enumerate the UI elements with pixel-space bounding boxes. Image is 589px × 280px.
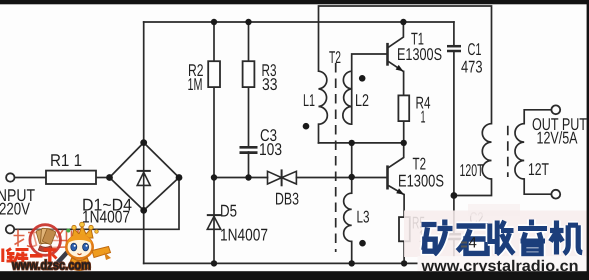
junction node R4 bottom T2 collector (401, 140, 407, 146)
watermark url band crystalradio (418, 256, 589, 273)
wire 12T bottom to output terminal (524, 179, 551, 194)
resistor R2 (208, 61, 220, 87)
wire R1 to bridge left vertex (96, 177, 110, 179)
wire R2 top lead (213, 22, 215, 61)
wire input bottom terminal to bridge right vertex (14, 178, 179, 230)
wire L3 bottom lead to bus (351, 241, 353, 263)
watermark char shou (488, 221, 514, 255)
svg-text:T2: T2 (329, 48, 341, 67)
junction node L2 bottom (349, 140, 355, 146)
wire L1-L2-R4 bottom row (319, 142, 404, 144)
svg-text:E1300S: E1300S (397, 45, 442, 64)
junction node T2 base (349, 174, 355, 180)
watermark dzsc red text weiku (3, 249, 57, 263)
transistor T1 (388, 43, 404, 72)
terminal input bottom (6, 225, 14, 233)
top black bar (0, 0, 589, 4)
wire top bus corner down to C1 (453, 22, 455, 45)
svg-text:L2: L2 (355, 91, 369, 110)
phase dot L3 (359, 240, 366, 247)
svg-text:1N4007: 1N4007 (220, 226, 268, 245)
wire C2 bottom to bus end (453, 241, 455, 264)
wire L3 top lead (351, 178, 353, 194)
watermark dzsc mascot body (69, 258, 91, 271)
svg-text:12V/5A: 12V/5A (537, 129, 578, 148)
junction bus R5 bottom (401, 260, 407, 266)
diode D5 (207, 215, 221, 229)
junction node C1-120T-C2 (451, 192, 458, 199)
watermark crystalradio pale backdrop (404, 211, 589, 258)
watermark dzsc seal circle (30, 225, 61, 256)
wire junction down through C2 to bus (453, 196, 455, 234)
wire L1 bottom lead (318, 124, 320, 143)
svg-text:473: 473 (461, 58, 483, 77)
winding L2 (343, 71, 352, 124)
wire R4 bottom to T2 collector node (403, 121, 405, 143)
capacitor C1 plates (447, 46, 461, 51)
svg-text:DB3: DB3 (275, 190, 299, 209)
junction bridge top vertex (140, 139, 147, 146)
terminal output bottom (551, 190, 560, 199)
watermark dzsc mascot sword (56, 241, 78, 264)
watermark dzsc mascot crown (66, 222, 98, 238)
winding L3 (344, 193, 352, 241)
winding L1 (319, 71, 328, 124)
wire junction to 120T bottom (454, 179, 492, 196)
wire feedback loop L1 top to 120T top (319, 6, 492, 124)
wire input top terminal to R1 (15, 177, 47, 179)
bridge rectifier D1~D4 diamond (110, 143, 180, 211)
wire R3 top lead (248, 22, 250, 61)
wire T1 emitter to R4 top (403, 71, 405, 95)
watermark char kuang (422, 220, 453, 255)
junction bus D5 bottom (211, 260, 217, 266)
watermark char shi (457, 226, 489, 254)
wire R3 bottom to C3 (248, 87, 250, 146)
wire C3 bottom to node (248, 152, 250, 178)
junction bridge right vertex (176, 174, 183, 181)
svg-text:103: 103 (259, 140, 282, 159)
watermark dzsc mascot head (66, 236, 92, 259)
wire 12T top to output terminal (524, 110, 551, 124)
resistor R1 (46, 171, 96, 184)
wire left vertical bridge top to bus (143, 22, 145, 143)
phase dot L2 (359, 75, 366, 82)
svg-text:D5: D5 (220, 202, 237, 221)
phase dot L1 (303, 123, 310, 130)
resistor R5 (399, 217, 410, 241)
svg-text:12T: 12T (528, 160, 549, 179)
junction bridge bottom vertex (140, 207, 147, 214)
bridge inner diode (137, 143, 151, 211)
wire node row D5 top to DB3 (214, 177, 268, 179)
svg-text:1M: 1M (188, 75, 203, 94)
wire T2 emitter to R5 top (403, 195, 405, 218)
svg-text:120T: 120T (460, 161, 484, 180)
wire L2 node to T2 base node (351, 143, 353, 178)
winding 120T primary (482, 124, 491, 179)
wire T1 collector to top bus (388, 22, 403, 47)
svg-text:www.dzsc.com: www.dzsc.com (11, 258, 91, 273)
terminal output top (551, 105, 560, 114)
wire top bus (144, 21, 454, 23)
capacitor C2 plates visible inside shi box (461, 243, 467, 247)
wire L2 top lead to T1 base (352, 54, 387, 124)
svg-text:R1 1: R1 1 (50, 151, 82, 170)
wire C1 bottom to junction node (453, 52, 455, 196)
diac DB3 (268, 169, 297, 186)
wire T2 base node to base bar (352, 177, 387, 179)
right black border (587, 0, 589, 280)
wire D5 branch down to bottom bus (213, 178, 215, 264)
watermark dzsc card fan (36, 228, 56, 252)
svg-text:L1: L1 (303, 91, 315, 110)
svg-text:C1: C1 (468, 40, 482, 59)
bottom black bar (0, 271, 589, 280)
watermark dzsc red outline chars (14, 230, 79, 248)
wire R2 bottom lead to node (213, 87, 215, 177)
wire R5 bottom to bottom bus (403, 241, 405, 263)
transformer T2 core (dashed) (335, 63, 337, 252)
svg-text:4: 4 (469, 235, 477, 252)
junction node C3 bottom (245, 174, 251, 180)
svg-text:1N4007: 1N4007 (82, 208, 130, 227)
wire bridge bottom to bottom bus (143, 210, 145, 263)
watermark char ji (550, 221, 582, 255)
svg-text:E1300S: E1300S (398, 172, 444, 191)
capacitor C2 plates (447, 234, 461, 239)
wire bottom bus (144, 262, 454, 264)
junction R3 top bus (245, 19, 251, 25)
junction bridge left vertex (106, 174, 113, 181)
junction bus L3 bottom (349, 260, 355, 266)
wire T2 collector from node (388, 143, 403, 168)
wire DB3 to T2 base node (296, 177, 351, 179)
resistor R3 (243, 61, 255, 87)
transistor T2 (388, 165, 405, 194)
winding 12T secondary (515, 124, 524, 179)
junction T1 collector bus (400, 19, 406, 25)
resistor R4 (398, 95, 409, 121)
svg-text:1: 1 (421, 108, 426, 127)
junction node D5 top (211, 174, 217, 180)
svg-text:L3: L3 (357, 208, 370, 227)
junction R2 top bus (211, 19, 217, 25)
terminal input top (6, 173, 14, 181)
output transformer core (dashed) (507, 126, 509, 177)
watermark char yin (518, 220, 547, 255)
watermark dzsc mascot eyes (71, 243, 77, 251)
capacitor C3 plates (240, 147, 258, 152)
svg-text:220V: 220V (0, 200, 31, 219)
svg-text:33: 33 (262, 75, 278, 94)
